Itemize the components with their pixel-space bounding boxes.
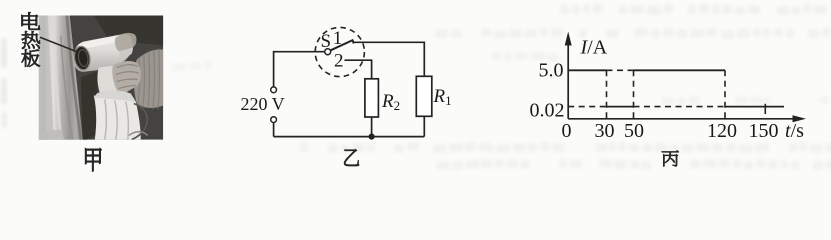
label dian-re-ban (electric heating plate) bbox=[22, 12, 40, 29]
curve: I=5.0 solid segments bbox=[568, 70, 784, 106]
svg-text:R1: R1 bbox=[433, 86, 452, 108]
wire: R1 bottom bbox=[423, 116, 425, 136]
wire: R2 bottom bbox=[371, 117, 373, 137]
photo of hair dryer (electric heating plate) bbox=[39, 16, 163, 140]
svg-text:1: 1 bbox=[333, 28, 343, 49]
x axis bbox=[568, 118, 796, 120]
svg-text:50: 50 bbox=[624, 120, 644, 142]
circuit: 220V source terminals bbox=[274, 42, 425, 136]
leader line from label to nozzle bbox=[40, 37, 78, 52]
background bleed-through texture bbox=[1, 4, 831, 170]
svg-text:5.0: 5.0 bbox=[539, 60, 564, 82]
svg-text:t/s: t/s bbox=[785, 120, 804, 142]
caption jia bbox=[85, 148, 101, 171]
dashed vertical t=50 bbox=[633, 70, 635, 119]
svg-text:I/A: I/A bbox=[580, 37, 608, 59]
svg-text:30: 30 bbox=[595, 120, 615, 142]
wire: contact2 to R2 bbox=[345, 60, 372, 79]
dashed vertical t=30 bbox=[606, 70, 608, 119]
terminal bottom bbox=[271, 117, 277, 123]
y axis bbox=[567, 44, 569, 119]
svg-text:R2: R2 bbox=[381, 91, 400, 113]
x tick labels bbox=[562, 120, 779, 142]
wire: top right rail to R1 bbox=[354, 42, 425, 76]
dashed vertical t=120 bbox=[724, 70, 726, 119]
resistor R2 box bbox=[365, 79, 379, 117]
dashed 5.0 between 30-50 bbox=[607, 69, 634, 71]
caption yi bbox=[344, 149, 359, 165]
resistor R1 box bbox=[416, 76, 432, 116]
switch blade to contact 1 bbox=[331, 40, 354, 50]
terminal top bbox=[271, 87, 277, 93]
svg-text:S: S bbox=[321, 31, 332, 52]
svg-text:150: 150 bbox=[749, 120, 779, 142]
svg-text:220 V: 220 V bbox=[241, 94, 285, 114]
svg-text:120: 120 bbox=[707, 120, 737, 142]
svg-text:0.02: 0.02 bbox=[530, 99, 565, 121]
svg-text:2: 2 bbox=[334, 50, 344, 71]
tick at t=150 bbox=[764, 104, 766, 114]
y axis arrowhead bbox=[565, 32, 572, 46]
wire: bottom rail bbox=[274, 136, 425, 138]
switch S common contact bbox=[325, 49, 331, 55]
dashed circle around switch bbox=[315, 27, 364, 76]
x axis arrowhead bbox=[793, 115, 807, 122]
svg-text:0: 0 bbox=[562, 120, 572, 142]
graph axes bbox=[568, 44, 796, 119]
curve: I=0.02 solid segments bbox=[607, 106, 634, 108]
junction dot bbox=[369, 134, 375, 140]
caption bing bbox=[662, 151, 679, 167]
dashed 0.02 level bbox=[568, 106, 606, 108]
wire: left bottom vertical bbox=[273, 123, 275, 137]
wire: left top vertical bbox=[274, 52, 325, 87]
